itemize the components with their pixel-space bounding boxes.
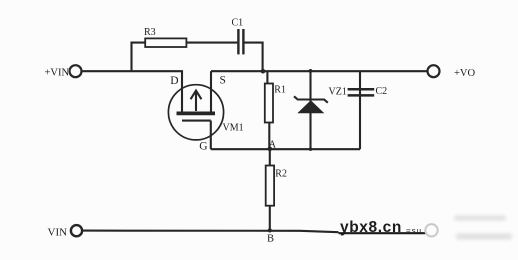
transistor VM1 gate line [182,120,211,122]
watermark ybx8.cn [339,216,513,240]
wire gate drop to mid rail [210,121,212,150]
wire R1 top lead [266,71,268,83]
terminal VIN [71,225,82,236]
svg-text:R3: R3 [144,27,156,38]
resistor R3 [145,38,186,47]
resistor R2 [266,166,274,206]
wire R2 to node B [269,206,271,231]
wire R3 to C1 [186,42,237,44]
svg-text:S: S [220,75,226,87]
svg-text:VM1: VM1 [223,123,244,134]
wire source riser [210,71,212,111]
svg-text:R2: R2 [275,169,287,180]
terminal +VIN [70,65,82,77]
watermark remnant smudges right [454,216,512,240]
capacitor C2 [348,89,375,95]
svg-text:B: B [267,234,274,245]
transistor VM1 body circle [168,85,223,140]
svg-text:VIN: VIN [48,227,68,239]
wire node A to R2 [269,149,271,165]
node junction at zener top [309,69,313,73]
svg-text:D: D [170,75,178,87]
svg-text:+VIN: +VIN [45,67,70,78]
node B junction dot [268,228,272,232]
capacitor C1 [238,29,243,54]
svg-text:G: G [199,141,207,153]
wire zener riser [309,71,311,149]
wire top rail left (+VIN to drain corner) [82,71,182,111]
svg-text:VZ1: VZ1 [329,87,347,98]
zener diode VZ1 triangle [297,100,324,113]
node junction at zener bottom [309,148,312,151]
svg-text:R1: R1 [274,85,286,96]
transistor VM1 arrow [191,91,202,111]
wire R1 bottom lead to node A [268,123,270,150]
zener diode VZ1 cathode bar [294,96,328,102]
wire R3 branch left riser [132,43,146,72]
svg-text:A: A [269,140,277,151]
node junction at C1/R1 [261,69,266,74]
svg-text:C1: C1 [232,18,244,29]
resistor R1 [265,84,273,123]
node A junction dot [268,147,273,152]
terminal +VO [428,65,440,77]
wire bottom rail [82,231,338,233]
wire top rail right (source to +VO) [211,70,427,72]
wire C2 riser [359,71,361,149]
svg-text:C2: C2 [376,86,388,97]
wire C1 to junction riser [244,43,262,72]
svg-text:+VO: +VO [454,68,476,79]
watermark remnant faded terminal circle [425,224,437,236]
svg-text:=su: =su [406,227,422,236]
wire mid rail (G to C2 bottom) [211,148,360,150]
transistor VM1 channel bar [177,112,216,116]
